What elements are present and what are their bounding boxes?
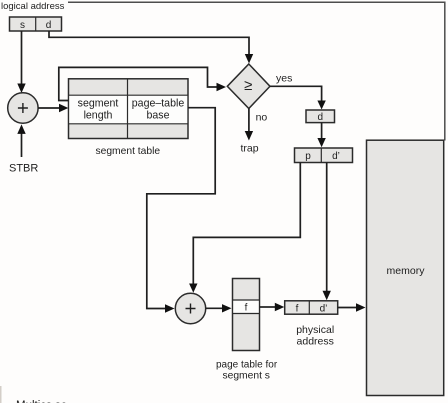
- frame line top/right: [68, 2, 445, 140]
- svg-text:address: address: [297, 336, 334, 348]
- svg-text:d: d: [46, 20, 52, 31]
- wire no to trap: [245, 109, 253, 141]
- f d' physical address box: [285, 301, 338, 315]
- memory box: [367, 140, 444, 395]
- svg-text:STBR: STBR: [9, 162, 38, 174]
- svg-text:page table for: page table for: [216, 360, 278, 371]
- STBR arrow: [17, 124, 25, 157]
- svg-text:d’: d’: [332, 151, 340, 162]
- comparator diamond: [227, 64, 270, 109]
- svg-text:segment s: segment s: [222, 371, 270, 382]
- adder1: [8, 93, 38, 123]
- logical address register box s|d: [10, 17, 62, 31]
- wire page table to f d' box: [260, 303, 285, 311]
- wire page-table base to adder2: [147, 108, 215, 313]
- svg-text:f: f: [245, 303, 248, 314]
- svg-text:segment table: segment table: [95, 146, 160, 157]
- wire p to adder2: [189, 163, 300, 293]
- svg-text:d’: d’: [320, 303, 328, 314]
- wire segment length to comparator: [59, 67, 226, 100]
- wire s to adder1: [17, 31, 25, 93]
- wire d' to physical address: [323, 163, 331, 301]
- svg-text:no: no: [256, 111, 268, 123]
- segment table: [69, 79, 189, 139]
- faint slide edge bottom left: [0, 386, 2, 403]
- label physical address: [296, 324, 334, 348]
- wire d box to p d' box: [317, 123, 325, 148]
- adder2: [175, 293, 205, 323]
- svg-text:s: s: [20, 20, 25, 31]
- wire d to comparator: [49, 31, 253, 64]
- d box: [306, 110, 335, 123]
- svg-text:base: base: [147, 110, 170, 122]
- page table box: [233, 279, 260, 351]
- svg-text:d: d: [318, 112, 324, 123]
- p d' box: [295, 148, 353, 163]
- svg-text:length: length: [84, 110, 113, 122]
- svg-text:physical: physical: [296, 324, 334, 336]
- svg-text:yes: yes: [276, 73, 292, 85]
- wire yes to d box: [270, 86, 326, 109]
- svg-text:page–table: page–table: [132, 98, 185, 110]
- wire adder1 to segment table: [38, 104, 68, 112]
- svg-text:f: f: [296, 303, 299, 314]
- svg-text:logical address: logical address: [1, 1, 65, 12]
- svg-text:trap: trap: [240, 143, 258, 155]
- svg-text:memory: memory: [387, 265, 426, 277]
- label page table for segment s: [216, 360, 278, 382]
- wire adder2 to page table: [206, 304, 232, 312]
- svg-text:p: p: [305, 151, 311, 162]
- svg-text:≥: ≥: [244, 77, 252, 94]
- wire physical address to memory: [338, 303, 366, 311]
- svg-text:segment: segment: [78, 98, 119, 110]
